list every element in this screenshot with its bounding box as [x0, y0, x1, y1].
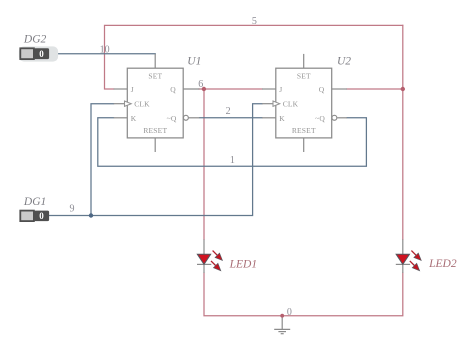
svg-text:10: 10: [100, 45, 110, 56]
svg-text:2: 2: [226, 106, 231, 117]
svg-text:J: J: [131, 85, 134, 94]
svg-text:CLK: CLK: [283, 100, 299, 109]
svg-text:DG1: DG1: [23, 196, 46, 208]
svg-text:5: 5: [252, 16, 257, 27]
svg-text:Q: Q: [319, 85, 325, 94]
svg-text:1: 1: [230, 155, 235, 166]
svg-text:RESET: RESET: [292, 126, 316, 135]
svg-text:6: 6: [198, 79, 203, 90]
svg-text:K: K: [279, 114, 285, 123]
svg-text:U1: U1: [187, 56, 201, 68]
svg-text:9: 9: [70, 203, 75, 214]
svg-text:U2: U2: [337, 56, 351, 68]
svg-text:K: K: [131, 114, 137, 123]
svg-text:0: 0: [287, 307, 292, 318]
svg-text:LED2: LED2: [428, 258, 457, 270]
svg-text:RESET: RESET: [143, 126, 167, 135]
svg-text:0: 0: [39, 211, 44, 221]
svg-text:~Q: ~Q: [315, 114, 325, 123]
svg-text:DG2: DG2: [23, 34, 47, 46]
svg-text:Q: Q: [170, 85, 176, 94]
svg-text:0: 0: [39, 49, 44, 59]
svg-text:SET: SET: [297, 71, 311, 80]
svg-text:~Q: ~Q: [167, 114, 177, 123]
svg-text:LED1: LED1: [229, 258, 257, 270]
svg-text:SET: SET: [148, 71, 162, 80]
svg-text:J: J: [279, 85, 282, 94]
svg-text:CLK: CLK: [134, 100, 150, 109]
